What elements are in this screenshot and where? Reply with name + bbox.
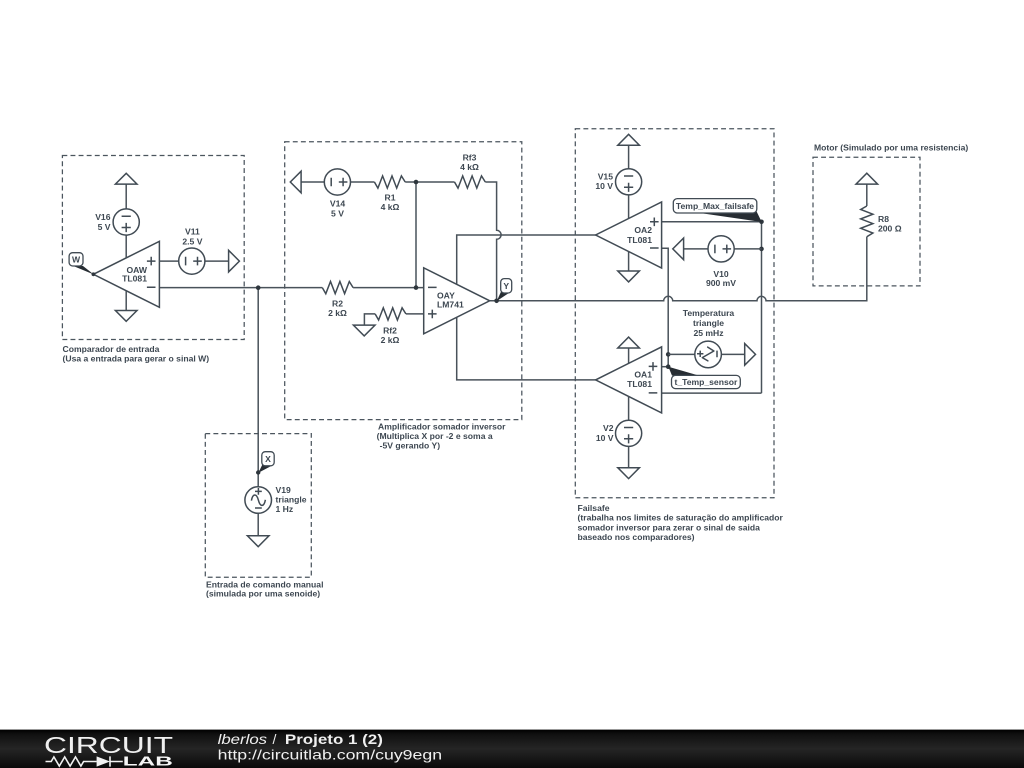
svg-text:LAB: LAB (123, 754, 173, 768)
svg-text:(simulada por uma senoide): (simulada por uma senoide) (206, 589, 320, 599)
svg-text:V2: V2 (603, 423, 614, 433)
net flag W at OAW output (69, 253, 95, 276)
net flag t_Temp_sensor (668, 367, 740, 389)
svg-text:10 V: 10 V (595, 181, 613, 191)
voltage source V2 10V (596, 396, 642, 467)
svg-text:LM741: LM741 (437, 300, 464, 310)
annotation box: Motor (813, 142, 968, 286)
node junction at V10 branch (759, 247, 764, 252)
wire: R2 right lead to OAY minus input with node (353, 287, 424, 289)
wire: vertical from node to V19 / flag X (257, 288, 259, 487)
svg-text:X: X (265, 454, 271, 464)
svg-text:lberlos: lberlos (218, 731, 268, 747)
svg-text:V15: V15 (598, 171, 614, 181)
power flag up arrow above R8 (856, 173, 878, 206)
resistor Rf3 4k (455, 153, 486, 188)
svg-text:Failsafe: Failsafe (578, 503, 610, 513)
svg-text:Comparador de entrada: Comparador de entrada (63, 344, 160, 354)
CircuitLab logo wordmark CIRCUIT (44, 732, 173, 758)
op-amp OAW TL081 (93, 241, 159, 307)
svg-text:R8: R8 (878, 214, 889, 224)
svg-text:2.5 V: 2.5 V (182, 236, 202, 246)
svg-text:V14: V14 (330, 199, 346, 209)
wire: Rf3 right lead down to output node with hop over supply wire (485, 182, 501, 301)
ground flag down arrow below OAW (115, 291, 137, 321)
wire: OA2 plus input to Temp_Max_failsafe node (662, 221, 762, 223)
svg-text:Temperatura: Temperatura (683, 308, 735, 318)
voltage source V15 10V (595, 169, 641, 219)
svg-text:(Multiplica X por -2 e soma a: (Multiplica X por -2 e soma a (377, 431, 493, 441)
svg-text:Y: Y (503, 281, 509, 291)
ground flag down arrow for Rf2 (353, 325, 375, 336)
source Temperatura triangle 25 mHz (668, 308, 745, 368)
svg-text:baseado nos comparadores): baseado nos comparadores) (578, 532, 695, 542)
wire: OA1 plus input stub (662, 366, 669, 368)
net flag X on command wire (256, 452, 274, 475)
net flag right arrow at V11 output (229, 250, 240, 272)
svg-text:(Usa a entrada para gerar o si: (Usa a entrada para gerar o sinal W) (63, 353, 210, 363)
wire: main output Y to motor with hops over failsafe verticals (490, 237, 867, 301)
svg-text:OA1: OA1 (634, 370, 652, 380)
svg-text:Temp_Max_failsafe: Temp_Max_failsafe (676, 201, 754, 211)
ground flag down arrow below OA2 (618, 252, 640, 282)
svg-text:2 kΩ: 2 kΩ (381, 335, 400, 345)
svg-text:http://circuitlab.com/cuy9egn: http://circuitlab.com/cuy9egn (218, 747, 443, 763)
net flag right arrow at Temperatura output (745, 344, 756, 366)
svg-text:Motor (Simulado por uma resist: Motor (Simulado por uma resistencia) (814, 142, 968, 152)
voltage source V10 900mV (684, 236, 762, 288)
wire: OAY V- pin down and right to OA1 output (457, 317, 596, 380)
net flag Temp_Max_failsafe (673, 199, 761, 222)
node junction at Y output (494, 299, 499, 304)
node junction at Temp_Max flag (759, 220, 764, 225)
wire: OAW minus input to R2 (node W-feedback) (159, 287, 322, 289)
node junction at OA1 plus / t_Temp_sensor (666, 364, 671, 369)
svg-text:1 Hz: 1 Hz (276, 504, 294, 514)
svg-text:Rf3: Rf3 (463, 153, 477, 163)
voltage source V14 5V (324, 169, 350, 218)
power flag up arrow above V15 (618, 134, 640, 169)
svg-text:-5V gerando Y): -5V gerando Y) (380, 441, 441, 451)
node junction R1-Rf3 top (414, 180, 419, 185)
CircuitLab logo wordmark LAB (123, 754, 173, 768)
ground flag down arrow below V2 (618, 468, 640, 479)
power flag up arrow above V16 (115, 173, 137, 209)
node junction at OAY minus input (414, 285, 419, 290)
svg-text:TL081: TL081 (627, 235, 652, 245)
svg-text:TL081: TL081 (627, 379, 652, 389)
op-amp OA1 TL081 (596, 347, 662, 413)
net flag left arrow at V10 (673, 238, 684, 260)
CircuitLab logo resistor-diode symbol (46, 756, 123, 766)
svg-text:R1: R1 (385, 193, 396, 203)
svg-text:R2: R2 (332, 298, 343, 308)
svg-text:OA2: OA2 (634, 225, 652, 235)
voltage source V19 triangle 1 Hz (245, 485, 307, 536)
svg-text:V11: V11 (185, 227, 200, 237)
svg-text:25 mHz: 25 mHz (693, 328, 723, 338)
svg-text:10 V: 10 V (596, 433, 614, 443)
svg-text:/: / (273, 731, 277, 747)
svg-text:TL081: TL081 (122, 274, 147, 284)
resistor R2 2k (322, 282, 353, 318)
svg-text:V16: V16 (95, 212, 111, 222)
wire: V14 flag to R1 left lead (301, 181, 374, 183)
svg-text:200 Ω: 200 Ω (878, 224, 902, 234)
svg-text:5 V: 5 V (98, 222, 111, 232)
footer black bar (0, 730, 1024, 768)
wire: vertical R1/Rf3 junction down to OAY minus line (415, 182, 417, 288)
svg-text:900 mV: 900 mV (706, 278, 736, 288)
voltage source V11 2.5V (159, 227, 228, 275)
wire: OAY V+ pin up and right to OA2 output (457, 235, 596, 284)
node junction at OAW feedback branch (256, 285, 261, 290)
annotation box: Entrada de comando manual (205, 434, 323, 599)
wire: right vertical from Temp_Max node down to OA1 minus wire (761, 222, 763, 393)
net flag Y at OAY output (497, 279, 512, 301)
svg-text:4 kΩ: 4 kΩ (381, 202, 400, 212)
wire: R1 right lead to Rf3 left lead through junction (405, 181, 454, 183)
svg-text:(trabalha nos limites de satur: (trabalha nos limites de saturação do am… (578, 513, 784, 523)
annotation box: Amplificador somador inversor (285, 142, 522, 451)
footer title: lberlos / Projeto 1 (2) (218, 731, 383, 747)
ground flag down arrow below V19 (247, 536, 269, 547)
svg-text:triangle: triangle (693, 318, 724, 328)
svg-text:Projeto 1 (2): Projeto 1 (2) (285, 731, 383, 747)
op-amp OA2 TL081 (596, 202, 662, 268)
net flag left arrow at V14 (290, 171, 301, 193)
svg-text:Amplificador somador inversor: Amplificador somador inversor (378, 422, 506, 432)
annotation box: Comparador de entrada (62, 156, 244, 364)
power flag up arrow above OA1 (618, 337, 640, 363)
resistor R1 4k (374, 176, 405, 212)
node junction at Temperatura source branch (666, 352, 671, 357)
svg-text:W: W (72, 255, 81, 265)
resistor Rf2 2k with ground (364, 308, 423, 345)
svg-text:5 V: 5 V (331, 208, 344, 218)
svg-text:4 kΩ: 4 kΩ (460, 162, 479, 172)
voltage source V16 5V (95, 209, 139, 258)
svg-text:2 kΩ: 2 kΩ (328, 308, 347, 318)
wire: OA1 minus input to right vertical (662, 392, 762, 394)
op-amp OAY LM741 (424, 268, 490, 334)
footer url (218, 747, 443, 763)
svg-text:t_Temp_sensor: t_Temp_sensor (674, 377, 738, 387)
annotation box: Failsafe (575, 129, 783, 542)
svg-text:somador inversor para zerar o: somador inversor para zerar o sinal de s… (578, 522, 761, 532)
wire: OA2 minus input down to OA1 plus input (662, 248, 669, 367)
svg-text:Rf2: Rf2 (383, 326, 397, 336)
resistor R8 200 ohm (861, 206, 902, 237)
